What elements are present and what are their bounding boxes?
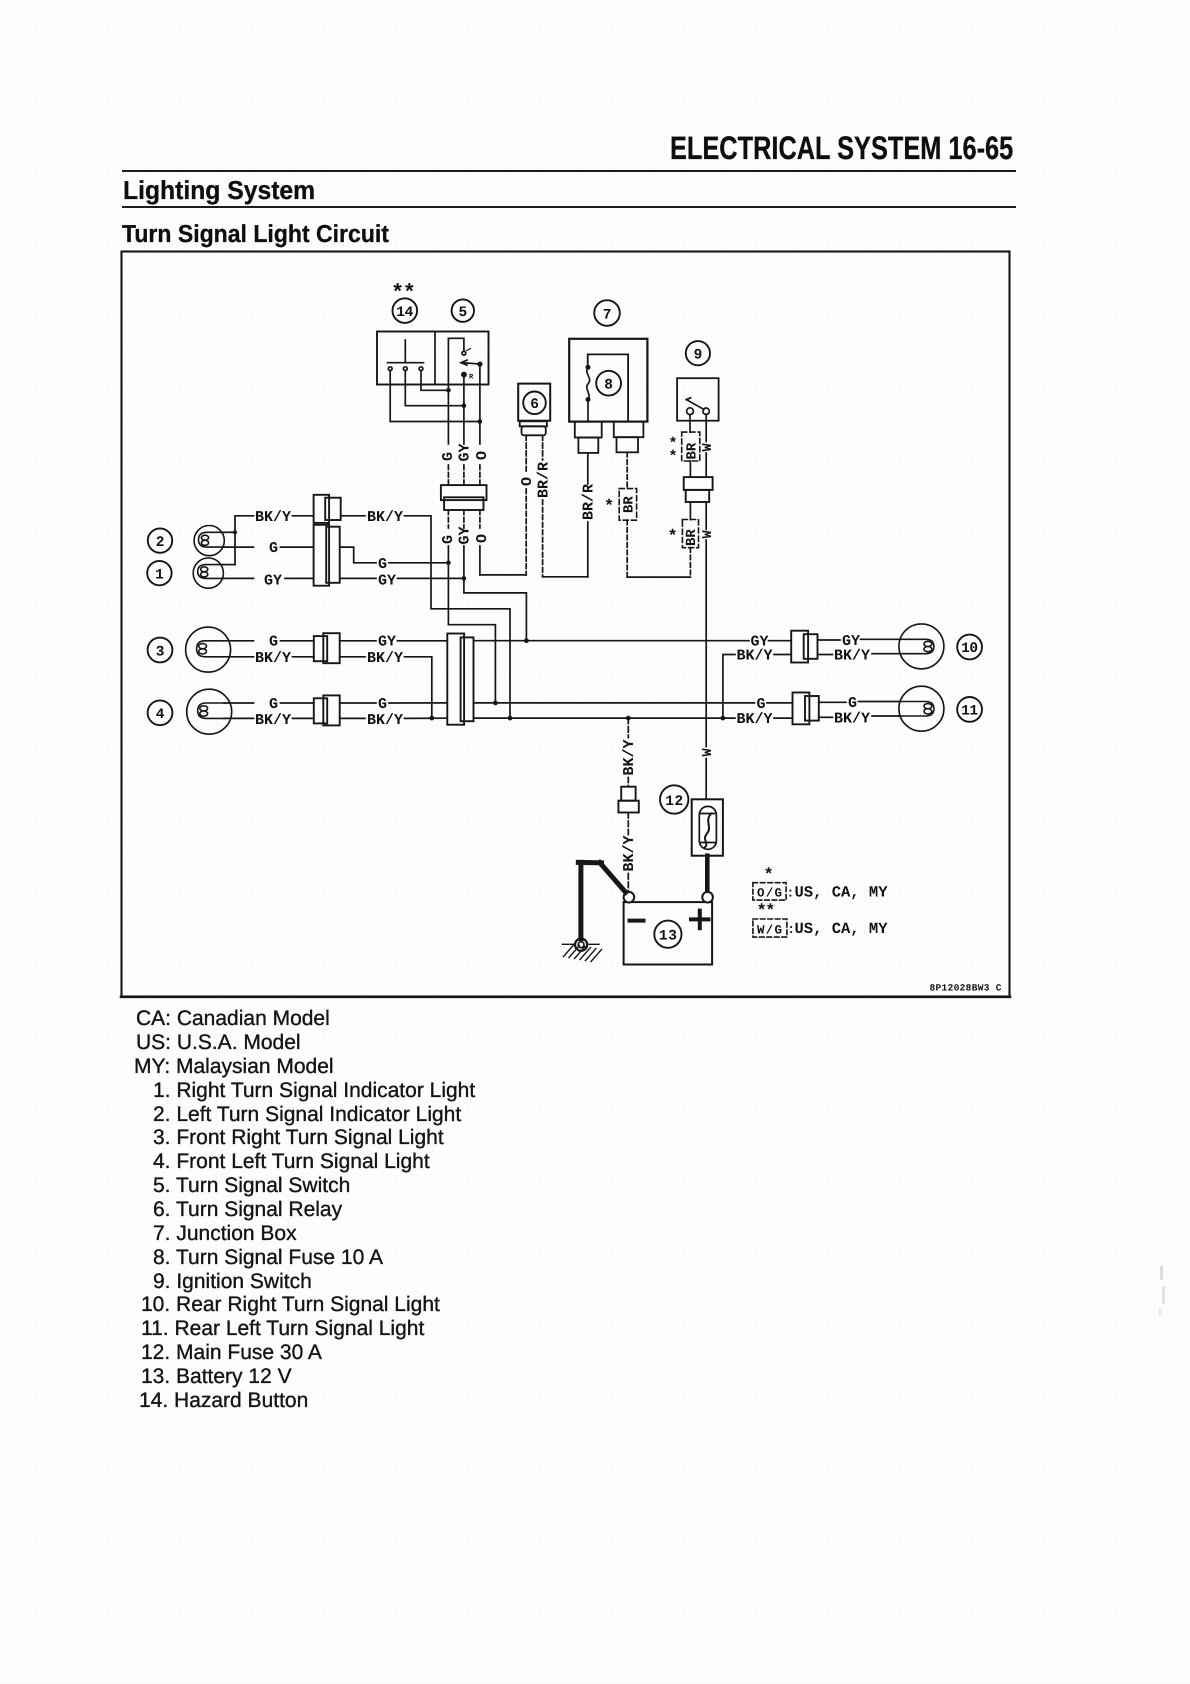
bulb: right turn indicator (2) (194, 526, 224, 556)
wire: row11 G right (819, 701, 846, 703)
wire: battery positive cable (thick) (705, 856, 710, 892)
wire: row11 G to bulb (859, 701, 899, 703)
wire: rear right BK/Y riser (723, 655, 735, 719)
note * O/G : US, CA, MY (753, 867, 888, 902)
circled 8 (596, 371, 621, 396)
wire: BK/Y drop to bus (405, 516, 511, 718)
svg-text:W: W (701, 443, 716, 452)
turn signal fuse 8 (10A) (586, 365, 591, 422)
node: GY joins GY bus (524, 638, 529, 643)
legend list (136, 1007, 330, 1031)
circled 9 (686, 341, 710, 365)
turn switch S5 arm (461, 360, 482, 366)
svg-text:*: * (668, 528, 678, 547)
wire: GY row1 left (224, 577, 254, 579)
diagram border frame (122, 252, 1010, 997)
svg-text:8: 8 (604, 378, 613, 394)
svg-text:GY: GY (457, 443, 474, 461)
wire: row10 BK/Y right (818, 654, 833, 656)
node: G joins row 4 (493, 701, 498, 706)
svg-text:9: 9 (694, 348, 703, 364)
svg-text:G: G (440, 535, 457, 544)
circled 7 (594, 300, 620, 326)
wire: ignition W stub (705, 414, 707, 441)
wire: ignition BR stub (689, 415, 691, 433)
svg-text:O/G: O/G (757, 887, 782, 901)
wire: GY bus into rear connector (769, 640, 792, 642)
wire: O link to relay (480, 574, 526, 576)
node: row3 BK/Y joins bus (429, 716, 434, 721)
hazard + turn signal switch box (14/5) (377, 332, 489, 385)
ignition switch contacts (686, 398, 709, 415)
wire: row4 G left (224, 702, 253, 704)
svg-text:10: 10 (961, 641, 978, 657)
bulb: rear left turn signal (11) (898, 686, 944, 731)
wire: bulb2 to BK/Y riser (224, 531, 236, 533)
svg-text:GY: GY (378, 572, 396, 589)
svg-text:BK/Y: BK/Y (367, 509, 403, 526)
junction box right tab (614, 422, 644, 453)
wire: hazard terminal 2 to GY junction (405, 371, 464, 406)
connector: indicator G/GY pair (314, 525, 340, 586)
svg-text:O: O (474, 451, 491, 460)
circled 13 (654, 921, 681, 948)
wire: row3 GY right (340, 640, 376, 642)
ground cable diagonal (thick) (600, 863, 626, 893)
scan smudge right margin (1160, 1266, 1163, 1280)
svg-text:GY: GY (457, 526, 474, 544)
circled 3 (148, 638, 173, 663)
wire: row3 G (281, 640, 314, 642)
svg-text:13: 13 (659, 929, 677, 945)
wire: BK/Y row1 right (341, 515, 365, 517)
svg-text:W: W (701, 748, 716, 757)
circled 1 (147, 561, 171, 585)
junction box left tab (575, 422, 602, 453)
node: GY junction below switch (462, 403, 467, 408)
main fuse 30A box (692, 799, 723, 855)
svg-text:*: * (604, 498, 614, 517)
wire: relay BR/R to junction box link (542, 500, 544, 577)
svg-text:W: W (701, 530, 716, 539)
svg-text:BK/Y: BK/Y (834, 648, 870, 665)
circled 5 (452, 299, 474, 321)
wire: row10 BK/Y to bulb (872, 653, 899, 655)
node: battery BK/Y tap (626, 716, 631, 721)
wire: hazard terminal 1 to O junction (390, 371, 480, 422)
wire: G jog to front-left G row (448, 625, 495, 703)
svg-text:6: 6 (530, 397, 539, 413)
circled 11 (957, 697, 982, 722)
wire: GY row1 (285, 577, 314, 579)
circled 14 (393, 298, 418, 323)
wire: BK/Y into inline connector (627, 778, 629, 787)
svg-text:G: G (378, 556, 387, 573)
svg-text:G: G (378, 696, 387, 713)
wire: row4 G (281, 702, 314, 704)
battery box 13 (624, 902, 713, 964)
wire: row4 BK/Y (293, 717, 314, 719)
sub title (122, 221, 389, 249)
junction box inner circuit (588, 354, 628, 421)
svg-text:BR: BR (622, 496, 638, 513)
ground symbol hatching (563, 944, 602, 961)
wire: BK/Y row1 (293, 515, 314, 517)
wire: junction box BR to ignition link (626, 520, 628, 577)
wire: G row2 left (224, 546, 254, 548)
wire: row10 GY to bulb (861, 638, 899, 640)
wire: relay BR/R lead (542, 435, 544, 460)
svg-text:O: O (519, 477, 536, 486)
wire: row4 G to central connector (389, 702, 447, 704)
junction box 7 outline (569, 339, 647, 422)
svg-text:G: G (269, 696, 278, 713)
wire: GY row1 right (341, 577, 376, 579)
svg-text:US, CA, MY: US, CA, MY (795, 920, 889, 938)
wire: relay O lead (525, 435, 527, 471)
wire: row3 BK/Y right (340, 656, 365, 658)
wire: G bus to rear left (474, 702, 755, 704)
connector: rear left light 2-pin (793, 693, 819, 725)
connector: ignition 2-pin (684, 477, 713, 502)
wire: switch GY lead down (463, 377, 465, 444)
svg-text:11: 11 (961, 704, 978, 720)
wire: row11 BK/Y to bulb (872, 715, 899, 717)
section title (123, 175, 315, 206)
wire: junction box BR lead dashed (626, 452, 628, 488)
wire: ignition BR to connector (689, 461, 691, 477)
svg-text:1: 1 (155, 568, 164, 584)
wire: row4 BK/Y right (340, 717, 365, 719)
bulb: front left turn signal (4) (187, 689, 232, 734)
circled 4 (148, 700, 173, 725)
note ** W/G : US, CA, MY (753, 903, 888, 939)
svg-text:R: R (469, 374, 474, 382)
wire: G/GY/O dashed below connector (447, 510, 449, 528)
svg-text:BK/Y: BK/Y (621, 739, 638, 775)
svg-text:BK/Y: BK/Y (834, 710, 870, 727)
svg-text:BR: BR (684, 529, 700, 546)
wire: row4 BK/Y left (224, 717, 253, 719)
wire: row3 BK/Y left (223, 656, 253, 658)
svg-text:12: 12 (665, 794, 683, 810)
node: G row junction (446, 561, 451, 566)
wire: row3 G left (223, 640, 253, 642)
connector: front left light 2-pin (314, 695, 340, 725)
wire: bulb1 top lead to riser (224, 564, 236, 566)
wire: row4 G right (340, 702, 376, 704)
svg-text:BK/Y: BK/Y (255, 509, 291, 526)
wire: W bus to main fuse (705, 759, 707, 800)
battery negative terminal (624, 892, 635, 903)
svg-text:7: 7 (603, 307, 612, 323)
svg-text:BR/R: BR/R (535, 462, 552, 498)
connector: switch 3-pin (441, 485, 487, 510)
circled 6 (523, 392, 546, 415)
wire: G dashed into connector (447, 465, 449, 485)
ground terminal eyelet (575, 939, 587, 951)
rule below Lighting System (122, 206, 1016, 208)
svg-text:8P12028BW3 C: 8P12028BW3 C (930, 983, 1002, 994)
connector: indicator BK/Y pair (314, 495, 341, 523)
hazard button switch S14 contacts (388, 340, 424, 371)
svg-text:5: 5 (459, 305, 468, 321)
svg-text::: : (787, 886, 795, 901)
rule above Lighting System (122, 170, 1016, 172)
battery positive terminal (702, 892, 713, 903)
wire: row10 BK/Y into connector (774, 654, 791, 656)
turn signal relay box 6 (518, 384, 550, 421)
turn switch S5 L contact (448, 338, 470, 355)
wire: ignition BR down to junction link (689, 548, 691, 577)
main fuse cartridge (699, 806, 716, 849)
wire: G row2 to junction (389, 562, 448, 564)
svg-text:G: G (269, 634, 278, 651)
wire: hazard terminal 3 to G junction (421, 371, 448, 391)
svg-text:BK/Y: BK/Y (255, 650, 291, 667)
wire: G row2 right jog (341, 547, 376, 563)
node: BK/Y riser tap (233, 530, 237, 534)
svg-text:BK/Y: BK/Y (367, 712, 403, 729)
wire: junction box BR/R lead (587, 453, 589, 484)
connector marker *BR (main harness) (668, 520, 700, 548)
svg-text:2: 2 (156, 535, 165, 551)
wire: BK/Y bus (474, 717, 736, 719)
bulb: rear right turn signal (10) (898, 624, 944, 669)
relay connector (520, 421, 547, 435)
connector marker *BR (junction box) (604, 489, 638, 521)
wire: relay O lead lower (525, 489, 527, 575)
circled 2 (148, 528, 172, 552)
wire: row10 GY right (818, 639, 841, 641)
wire: BK/Y bus into rear connector (774, 717, 793, 719)
ground cable horizontal (thick) (578, 860, 601, 865)
svg-text:14: 14 (396, 305, 413, 321)
connector: rear right light 2-pin (791, 631, 817, 663)
wire: row3 BK/Y (293, 656, 314, 658)
circled 12 (660, 785, 688, 813)
svg-text:W/G: W/G (757, 923, 782, 937)
circled 10 (957, 635, 982, 660)
wire: BR below connector (689, 502, 691, 520)
wire: switch G lead down (447, 338, 449, 444)
svg-text:BK/Y: BK/Y (621, 835, 638, 871)
bulb: front right turn signal (3) (186, 627, 231, 672)
svg-text:4: 4 (156, 707, 165, 723)
battery minus sign (630, 919, 644, 923)
connector marker **BR (ignition) (669, 432, 701, 465)
wire: BK/Y below connector (627, 813, 629, 835)
svg-text:3: 3 (156, 644, 165, 660)
wire: junction box BR/R to relay link (587, 522, 589, 577)
wire: G down to row junction (447, 546, 449, 625)
node: O junction below switch (478, 419, 483, 424)
svg-text:BK/Y: BK/Y (737, 711, 773, 728)
node: rear right BK/Y tap (721, 716, 726, 721)
wire: G bus into rear connector (767, 702, 793, 704)
ground cable vertical (thick) (578, 862, 583, 938)
svg-text:US, CA, MY: US, CA, MY (795, 883, 889, 901)
wire: GY jog to rear GY row (464, 578, 527, 640)
wire: O down to relay link (479, 546, 481, 575)
node: GY row junction (462, 576, 467, 581)
svg-text:G: G (440, 452, 457, 461)
wire: row11 BK/Y right (819, 716, 833, 718)
wire: G row2 (281, 546, 314, 548)
page header text (670, 130, 1013, 167)
wire: row3 GY to central connector (398, 640, 448, 642)
wire: GY row1 to junction (398, 577, 464, 579)
wire: GY bus to rear right (474, 640, 750, 642)
svg-text:BK/Y: BK/Y (255, 712, 291, 729)
svg-text:BK/Y: BK/Y (737, 648, 773, 665)
svg-text:BR: BR (684, 442, 700, 459)
svg-text:O: O (474, 534, 491, 543)
node: BK/Y joins bus (508, 716, 513, 721)
bulb: left turn indicator (1) (193, 558, 223, 588)
battery plus sign (691, 911, 709, 929)
svg-text:GY: GY (264, 572, 282, 589)
turn switch S5 R contact (462, 373, 474, 382)
wire: row3 BK/Y drop to bus (405, 657, 432, 718)
node: G junction below switch (446, 388, 451, 393)
svg-text:GY: GY (378, 634, 396, 651)
wire: ignition W to connector (705, 453, 707, 477)
connector: front right light 2-pin (314, 633, 340, 663)
ignition switch box 9 (677, 378, 719, 421)
wire: row4 BK/Y to central connector (405, 717, 448, 719)
svg-text:BK/Y: BK/Y (367, 650, 403, 667)
svg-text:G: G (269, 540, 278, 557)
svg-text:BR/R: BR/R (581, 484, 598, 520)
wire: switch O lead down (479, 366, 481, 444)
wire: W bus down to rows (705, 502, 707, 530)
connector: inline 1-pin (618, 787, 638, 813)
connector: main frame harness (447, 634, 473, 725)
wire: BK/Y riser (235, 516, 254, 565)
wire: BK/Y to battery negative (627, 874, 629, 892)
wire: GY down (463, 546, 465, 578)
wire: BK/Y drop from bus (627, 718, 629, 737)
svg-text:*: * (669, 449, 678, 466)
